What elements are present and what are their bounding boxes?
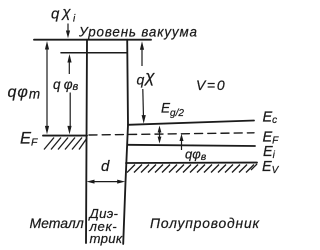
svg-text:Полупроводник: Полупроводник: [150, 216, 260, 231]
svg-text:d: d: [101, 158, 110, 175]
conduction band line E_C: [128, 121, 254, 125]
arrow E_g/2 (E_C to E_i): [158, 126, 162, 144]
Fermi level dashed line through dielectric and semiconductor: [89, 133, 254, 135]
svg-text:V=0: V=0: [196, 77, 225, 93]
svg-text:трик: трик: [90, 231, 123, 246]
svg-text:Металл: Металл: [30, 215, 84, 231]
arrow qφm (vacuum to metal Fermi level): [45, 41, 49, 134]
svg-text:Уровень вакуума: Уровень вакуума: [78, 24, 198, 39]
insulator conduction band line: [61, 52, 127, 54]
arrow qφв (insulator band to metal Fermi level): [67, 54, 71, 134]
dielectric barrier right edge: [123, 40, 128, 244]
metal surface hatching: [44, 138, 87, 150]
arrow d (dielectric thickness): [87, 180, 126, 184]
intrinsic level line E_i: [128, 145, 255, 146]
dielectric barrier left edge: [86, 40, 87, 243]
valence band line E_V: [126, 162, 257, 164]
svg-text:qφm: qφm: [8, 84, 42, 102]
arrow qχ (vacuum to semiconductor conduction band): [140, 41, 146, 123]
semiconductor surface hatching: [127, 164, 257, 173]
vacuum level line: [34, 39, 151, 41]
arrow qχi pointer: [66, 24, 70, 39]
metal Fermi level line E_F: [43, 135, 87, 137]
arrow qφв (E_i to Fermi level, semiconductor): [180, 134, 184, 150]
